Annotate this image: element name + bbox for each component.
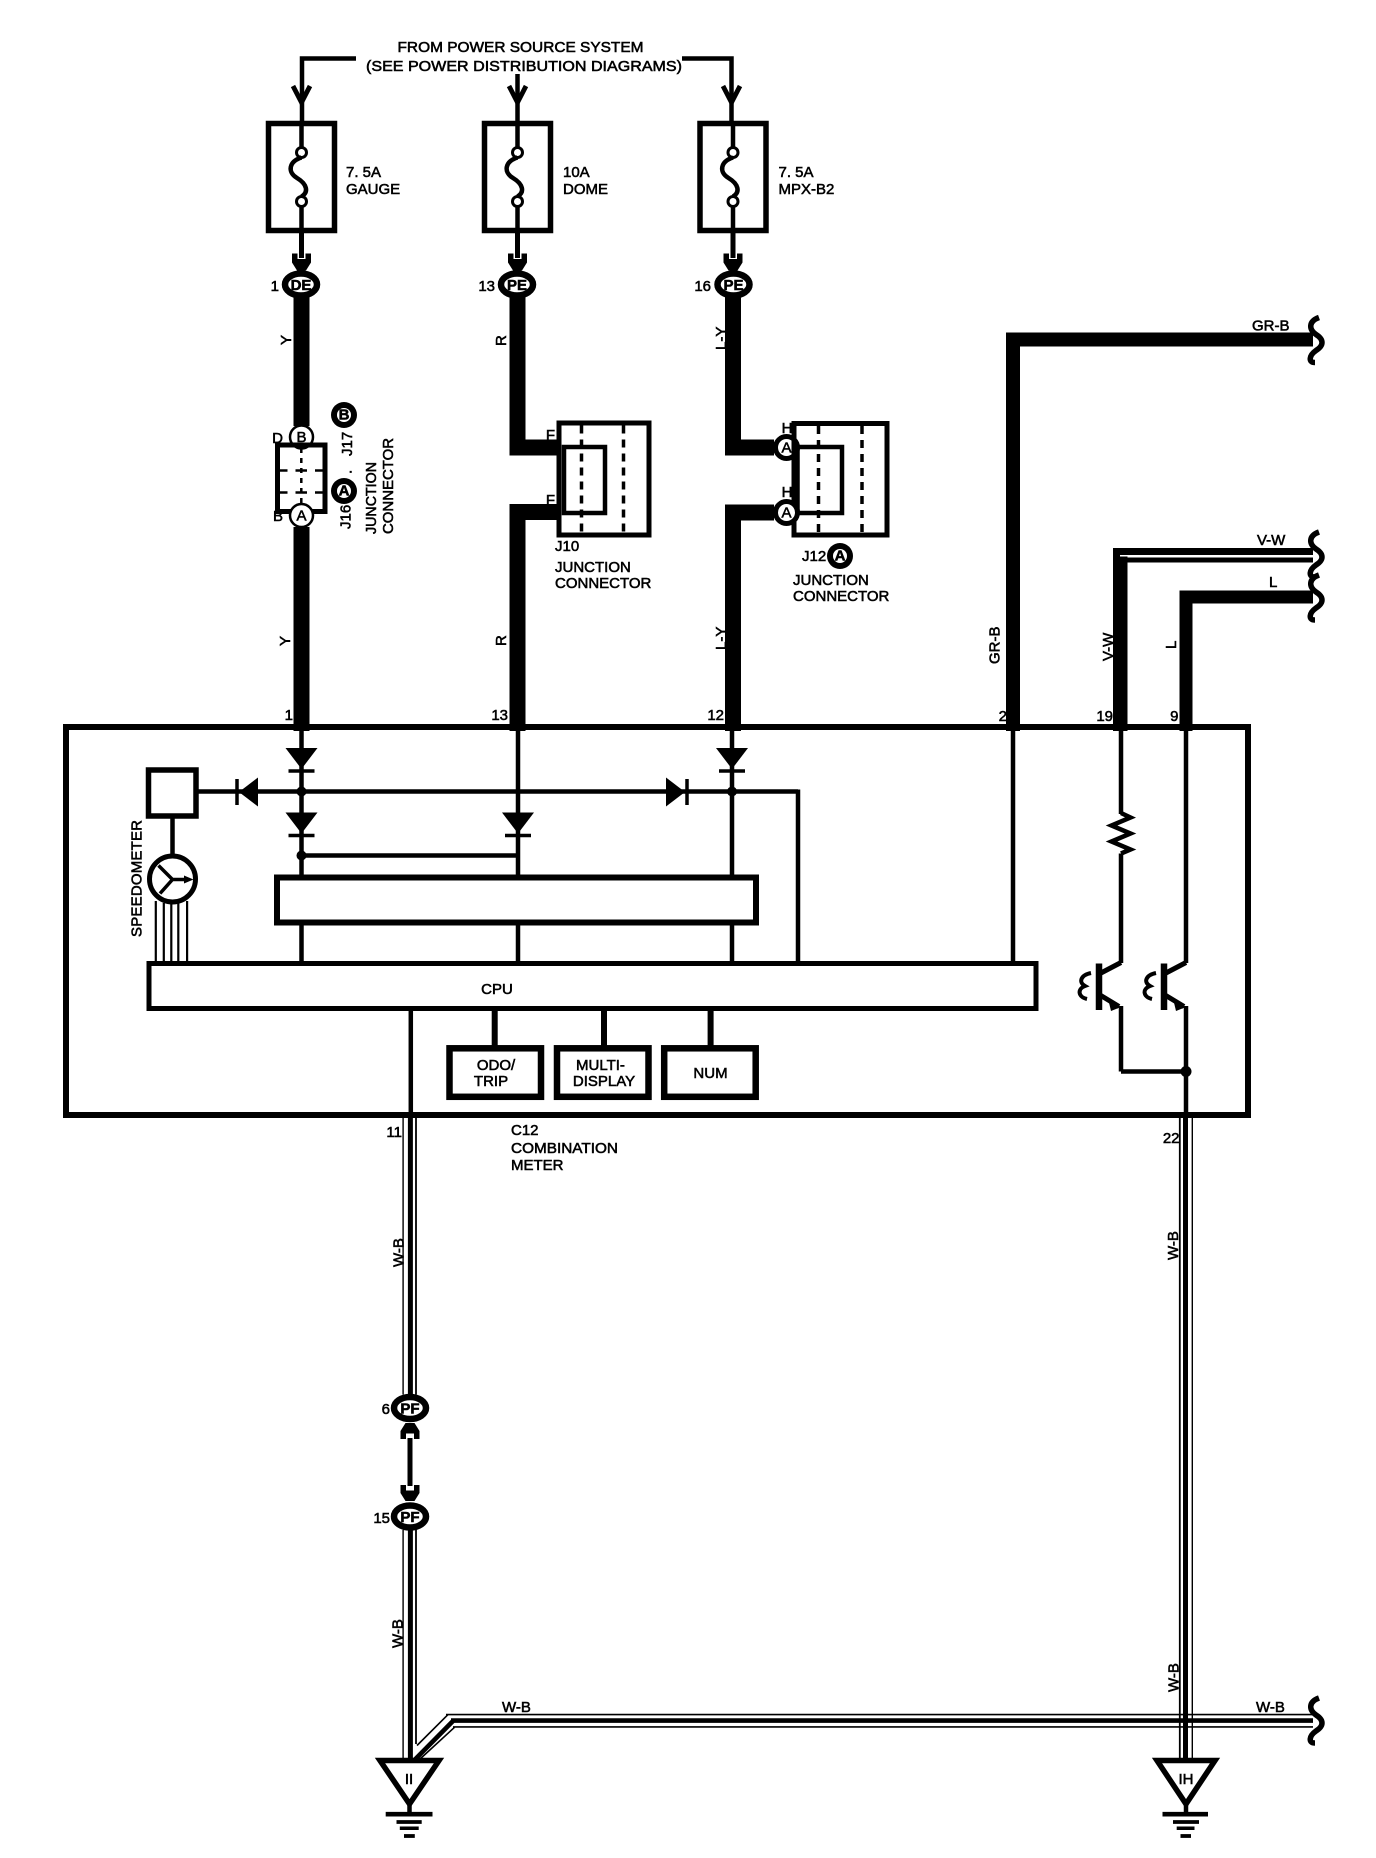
svg-text:C12: C12 — [511, 1122, 539, 1139]
page connector curl W-B — [1310, 1698, 1322, 1743]
wire Q1 emitter down — [1121, 1006, 1186, 1072]
node pin12-bus — [727, 787, 737, 797]
diode D2 left-pointing — [237, 778, 258, 807]
svg-text:PE: PE — [723, 277, 743, 294]
wire L vertical — [1180, 591, 1193, 732]
svg-text:METER: METER — [511, 1157, 564, 1174]
svg-text:13: 13 — [491, 707, 508, 724]
svg-text:L: L — [1269, 574, 1277, 591]
svg-text:9: 9 — [1170, 708, 1178, 725]
wire bus to CPU right — [730, 922, 735, 964]
svg-text:DE: DE — [291, 277, 312, 294]
diode D3 under node — [286, 813, 318, 836]
label J16 circle A — [331, 478, 357, 504]
wire resistor to Q1 — [1119, 854, 1124, 964]
wire bus to CPU left — [299, 922, 304, 964]
svg-text:Y: Y — [277, 636, 294, 646]
node D3 output — [297, 851, 307, 861]
wire pin19 internal upper — [1119, 730, 1124, 814]
diode D1 — [286, 748, 318, 771]
svg-text:GR-B: GR-B — [1252, 318, 1290, 335]
svg-text:W-B: W-B — [1166, 1663, 1183, 1692]
svg-text:II: II — [405, 1771, 413, 1788]
fuse F2 10A DOME — [485, 121, 551, 233]
wire CPU to ODO/TRIP — [492, 1008, 498, 1049]
wire pin13 internal — [516, 730, 521, 877]
svg-text:W-B: W-B — [391, 1238, 408, 1267]
svg-text:JUNCTION: JUNCTION — [555, 559, 631, 576]
svg-text:10A: 10A — [563, 164, 590, 181]
svg-text:FROM POWER SOURCE SYSTEM: FROM POWER SOURCE SYSTEM — [398, 39, 644, 56]
wire W-B below PF15 double line — [402, 1530, 404, 1760]
wire R lower segment from J10 — [510, 504, 559, 731]
wire CPU to MULTI-DISPLAY — [601, 1008, 607, 1049]
label J17 circle B — [331, 402, 357, 428]
svg-text:SPEEDOMETER: SPEEDOMETER — [129, 820, 146, 937]
wire W-B branch diagonal — [417, 1715, 448, 1746]
svg-text:CONNECTOR: CONNECTOR — [555, 575, 652, 592]
svg-text:IH: IH — [1179, 1771, 1194, 1788]
svg-text:B: B — [339, 407, 350, 424]
svg-text:GR-B: GR-B — [987, 627, 1004, 665]
svg-text:MULTI-: MULTI- — [576, 1057, 625, 1074]
svg-text:22: 22 — [1163, 1130, 1180, 1147]
wire bus corner to CPU — [796, 790, 801, 965]
svg-text:TRIP: TRIP — [474, 1073, 508, 1090]
page connector curl GR-B — [1310, 318, 1322, 363]
wire W-B pin11 double line — [402, 1118, 404, 1395]
svg-text:R: R — [493, 335, 510, 346]
svg-text:(SEE POWER DISTRIBUTION DIAGRA: (SEE POWER DISTRIBUTION DIAGRAMS) — [366, 58, 682, 75]
junction connector J16/J17 terminal B — [290, 426, 313, 449]
svg-text:H: H — [782, 420, 793, 437]
svg-text:.: . — [339, 470, 356, 474]
ground II — [380, 1761, 439, 1837]
svg-text:V-W: V-W — [1100, 632, 1117, 661]
svg-text:R: R — [493, 635, 510, 646]
wire R upper segment into J10 — [510, 296, 559, 456]
wire bus to CPU middle — [516, 922, 521, 964]
svg-text:PE: PE — [507, 277, 527, 294]
junction connector J12 terminal A lower — [776, 502, 798, 524]
wire Y upper segment — [294, 296, 310, 426]
wire Y lower segment — [294, 527, 310, 731]
svg-text:W-B: W-B — [390, 1619, 407, 1648]
svg-text:F: F — [546, 427, 555, 444]
junction connector J16/J17 box — [278, 445, 326, 512]
resistor R1 — [1112, 813, 1131, 854]
fuse F3 7.5A MPX-B2 — [700, 121, 766, 233]
svg-text:NUM: NUM — [693, 1065, 727, 1082]
svg-text:B: B — [273, 508, 283, 525]
svg-text:H: H — [782, 484, 793, 501]
page connector curl V-W — [1310, 532, 1322, 577]
svg-text:MPX-B2: MPX-B2 — [779, 181, 835, 198]
svg-text:11: 11 — [386, 1124, 402, 1141]
wire pin1 internal — [299, 730, 304, 877]
arrow into fuse 1 — [293, 86, 310, 103]
svg-text:Y: Y — [278, 335, 295, 345]
wire GR-B vertical — [1006, 333, 1020, 732]
display box NUM — [664, 1048, 756, 1097]
display box MULTI-DISPLAY — [557, 1048, 649, 1097]
wire L horizontal — [1186, 591, 1313, 604]
svg-text:W-B: W-B — [1256, 1699, 1285, 1716]
wire fuse F3 to connector PE — [731, 233, 736, 258]
svg-text:J10: J10 — [555, 538, 579, 555]
svg-text:16: 16 — [694, 278, 711, 295]
svg-text:A: A — [835, 548, 846, 565]
svg-text:DISPLAY: DISPLAY — [573, 1073, 635, 1090]
connector terminal 13 PE — [501, 274, 533, 296]
svg-text:6: 6 — [382, 1401, 390, 1418]
svg-text:DOME: DOME — [563, 181, 608, 198]
svg-text:1: 1 — [271, 278, 279, 295]
wire V-W horizontal — [1113, 548, 1313, 555]
wire W-B ground bus horizontal — [446, 1714, 1313, 1716]
svg-text:1: 1 — [285, 707, 293, 724]
wire middle power feed — [515, 74, 520, 121]
label J12 circle A — [827, 543, 853, 569]
wire L-Y lower segment from J12 — [725, 505, 774, 732]
svg-text:L-Y: L-Y — [713, 327, 730, 350]
arrow into fuse 3 — [723, 86, 740, 103]
wire fuse F1 to connector DE — [299, 233, 304, 258]
wire GR-B horizontal — [1013, 333, 1313, 347]
connector terminal 1 DE — [285, 274, 317, 296]
internal bus wire horizontal — [196, 789, 798, 794]
internal bus rectangle — [277, 878, 756, 923]
diode D5 under pin12 — [716, 748, 748, 771]
svg-text:W-B: W-B — [1165, 1231, 1182, 1260]
node pin1-bus — [297, 787, 307, 797]
junction connector J16/J17 terminal A — [290, 504, 313, 527]
diode D6 right-pointing — [666, 778, 687, 807]
svg-text:13: 13 — [478, 278, 495, 295]
svg-text:COMBINATION: COMBINATION — [511, 1140, 618, 1157]
wire pin12 internal — [730, 730, 735, 877]
svg-text:2: 2 — [999, 708, 1007, 725]
svg-text:A: A — [339, 483, 350, 500]
node emitters join — [1181, 1066, 1192, 1077]
wire Q2 emitter down — [1184, 1006, 1189, 1115]
transistor Q2 — [1145, 963, 1186, 1012]
connector terminal 6 PF — [394, 1397, 426, 1419]
wire CPU to pin11 — [409, 1008, 414, 1118]
wire pin2 internal — [1011, 730, 1016, 964]
transistor Q1 — [1080, 963, 1121, 1012]
svg-text:L: L — [1163, 641, 1180, 649]
connector terminal 15 PF — [394, 1506, 426, 1528]
wire pin9 internal — [1184, 730, 1189, 963]
display box ODO/TRIP — [450, 1048, 542, 1097]
svg-text:JUNCTION: JUNCTION — [793, 572, 869, 589]
svg-text:J12: J12 — [802, 548, 826, 565]
wire node to diode D4 — [302, 853, 519, 858]
svg-text:CONNECTOR: CONNECTOR — [793, 588, 890, 605]
diode D4 under pin13 — [502, 813, 534, 836]
wire W-B pin22 double line — [1179, 1118, 1181, 1760]
svg-text:7. 5A: 7. 5A — [346, 164, 381, 181]
svg-text:GAUGE: GAUGE — [346, 181, 400, 198]
svg-text:J17: J17 — [339, 432, 356, 456]
wire between PF connectors — [408, 1438, 413, 1486]
wire L-Y upper segment into J12 — [725, 296, 774, 456]
wire CPU to NUM — [708, 1008, 714, 1049]
svg-text:V-W: V-W — [1257, 532, 1286, 549]
arrow down into PF15 — [401, 1485, 420, 1501]
junction connector J12 box — [794, 424, 887, 536]
svg-text:L-Y: L-Y — [713, 627, 730, 650]
svg-text:CPU: CPU — [481, 981, 513, 998]
connector terminal 16 PE — [718, 274, 750, 296]
ground IH — [1157, 1761, 1215, 1837]
svg-text:15: 15 — [373, 1510, 390, 1527]
wire left power feed bracket — [302, 56, 356, 121]
junction connector J12 terminal A upper — [776, 437, 798, 459]
fuse F1 7.5A GAUGE — [269, 121, 335, 233]
svg-text:19: 19 — [1096, 708, 1113, 725]
svg-text:7. 5A: 7. 5A — [779, 164, 814, 181]
svg-text:A: A — [781, 505, 791, 522]
wire fuse F2 to connector PE — [515, 233, 520, 258]
wire V-W vertical — [1113, 548, 1120, 731]
combination meter box C12 — [66, 727, 1248, 1115]
svg-text:PF: PF — [400, 1401, 419, 1418]
speedometer block — [149, 770, 197, 902]
svg-text:A: A — [296, 508, 306, 525]
svg-text:ODO/: ODO/ — [477, 1057, 516, 1074]
junction connector J10 box — [559, 423, 649, 535]
speedometer cable bundle — [156, 901, 187, 964]
page connector curl L — [1310, 575, 1322, 620]
wire right power feed bracket — [682, 56, 732, 121]
svg-text:W-B: W-B — [502, 1699, 531, 1716]
svg-text:J16: J16 — [338, 505, 355, 529]
CPU rectangle — [149, 964, 1036, 1009]
arrow into fuse 2 — [509, 86, 526, 103]
svg-text:12: 12 — [707, 707, 724, 724]
arrow up into PF6 — [401, 1423, 420, 1439]
svg-text:A: A — [781, 440, 791, 457]
svg-text:PF: PF — [400, 1509, 419, 1526]
